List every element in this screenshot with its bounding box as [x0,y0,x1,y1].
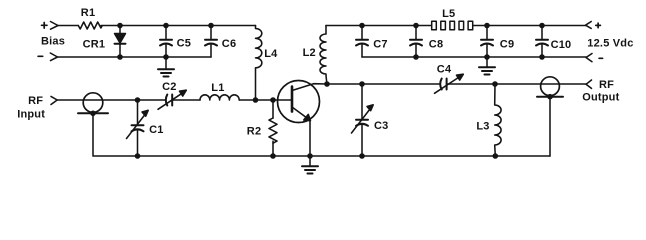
connector J2 output circle [541,77,560,96]
svg-text:12.5 Vdc: 12.5 Vdc [587,37,633,49]
inductor L1 [200,95,239,100]
node C10 top [539,23,545,29]
capacitor C7 [361,26,363,40]
node C6 top [208,23,214,29]
node C3 top [359,81,365,87]
node L3 bottom [493,153,499,159]
capacitor C2 (series variable) [166,95,168,106]
node C10 bottom [539,54,545,60]
node CR1 bottom [117,54,123,60]
svg-text:C10: C10 [551,39,572,51]
svg-text:Output: Output [582,91,619,103]
chevron bias plus [51,22,59,30]
svg-text:L5: L5 [442,8,455,20]
wire RF input line [57,99,165,101]
node R2 top [270,97,276,103]
node C5 top [163,23,169,29]
label + (bias) [42,23,48,29]
capacitor C5 [165,26,167,40]
capacitor C9 [486,26,488,40]
diode CR1 [119,26,121,34]
node C8 top [413,23,419,29]
capacitor C4 (series variable) [440,79,442,90]
resistor R2 [272,100,274,118]
resistor R1 [78,22,102,29]
node L3 top [492,81,498,87]
wire connector shield to ground rail [93,113,550,156]
svg-text:C8: C8 [429,38,443,50]
svg-text:C3: C3 [374,120,388,132]
chevron 12.5Vdc plus [586,22,592,29]
node C9 bottom [484,54,490,60]
node C1 top [135,97,141,103]
node C1 bottom [135,153,141,159]
svg-text:C9: C9 [500,38,514,50]
svg-text:R1: R1 [81,7,95,19]
inductor L5 (bead choke) [432,21,473,30]
svg-text:L2: L2 [303,47,316,59]
chevron RF input [51,96,57,104]
label - (supply) [599,57,603,59]
wire top bias rail left segment [58,25,78,27]
connector J1 input circle [83,93,103,113]
node C8 bottom [413,54,419,60]
svg-text:C6: C6 [222,38,236,50]
svg-text:C7: C7 [373,38,387,50]
inductor L4 [256,26,262,101]
chevron 12.5Vdc minus [586,54,592,62]
label - (bias) [38,55,43,57]
svg-text:R2: R2 [247,126,261,138]
svg-text:CR1: CR1 [83,39,106,51]
wire bottom bias rail [58,56,212,58]
svg-text:RF: RF [28,95,43,107]
node collector [324,81,330,87]
svg-text:C2: C2 [162,81,176,93]
capacitor C10 [541,26,543,40]
svg-text:C4: C4 [437,64,452,76]
svg-text:C5: C5 [177,37,191,49]
wire L1 to base [239,99,292,101]
node R2 bottom [270,153,276,159]
capacitor C3 (variable) [361,84,363,120]
ground below C9 [486,57,488,67]
wire connector J2 shield to ground rail [549,97,551,156]
svg-text:L4: L4 [264,48,278,60]
transistor Q1 [278,81,320,123]
svg-text:L1: L1 [211,82,224,94]
inductor L2 [320,26,327,85]
connector J1 shelf [78,112,108,114]
svg-text:Input: Input [17,109,45,121]
node CR1 top [117,23,123,29]
ground below emitter [309,156,311,166]
inductor L3 [495,84,501,156]
wire R1 to L4 corner [101,25,256,27]
capacitor C8 [415,26,417,40]
svg-text:C1: C1 [149,124,163,136]
node C7 top [359,23,365,29]
node emitter ground [307,153,313,159]
wire collector output line [327,83,439,85]
node C5 bottom [163,54,169,60]
wire top right rail [326,25,431,27]
capacitor C6 [210,26,212,40]
node L4 bottom [253,97,259,103]
svg-text:L3: L3 [476,121,489,133]
svg-text:Bias: Bias [41,36,65,48]
wire minus rail right [362,56,586,58]
svg-text:RF: RF [599,79,614,91]
node C9 top [484,23,490,29]
label + (supply) [596,23,601,28]
chevron bias minus [50,53,57,61]
capacitor C1 (variable) [137,100,139,125]
connector J2 shelf [537,96,563,98]
ground below C5 [165,57,167,69]
chevron RF output [586,80,592,88]
node C3 bottom [359,153,365,159]
